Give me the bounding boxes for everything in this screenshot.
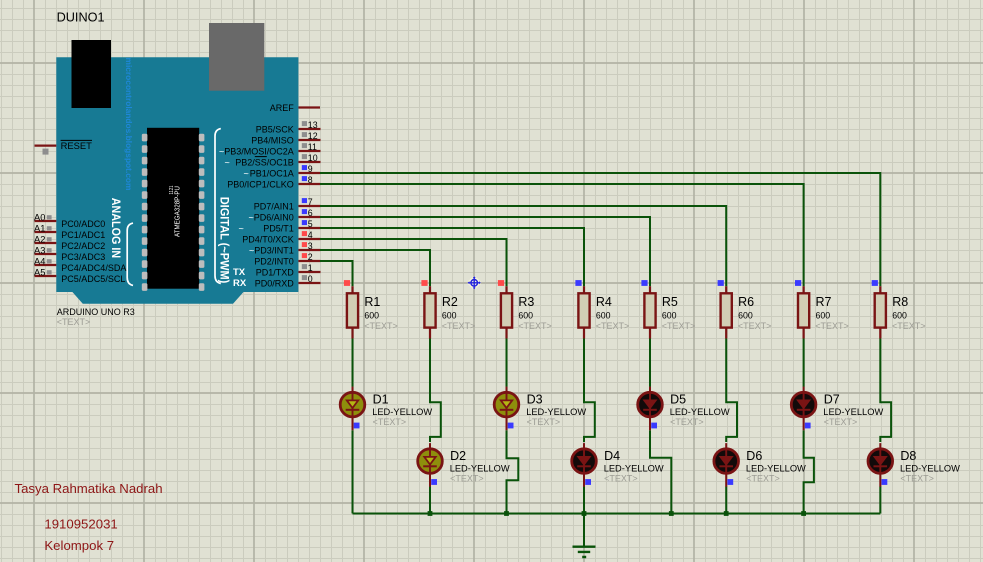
svg-text:12: 12 [308,131,318,141]
svg-text:1910952031: 1910952031 [44,517,117,532]
svg-text:<TEXT>: <TEXT> [824,417,858,427]
svg-text:A0: A0 [34,213,45,223]
svg-text:11: 11 [308,142,317,152]
svg-text:<TEXT>: <TEXT> [364,321,398,331]
svg-text:PD4/T0/XCK: PD4/T0/XCK [242,234,294,244]
svg-text:D4: D4 [604,449,620,463]
svg-text:1121: 1121 [169,185,175,194]
svg-text:<TEXT>: <TEXT> [900,473,934,483]
svg-text:TX: TX [233,267,246,278]
svg-text:D7: D7 [824,392,840,406]
svg-text:DIGITAL (~PWM): DIGITAL (~PWM) [218,197,230,284]
svg-text:PC0/ADC0: PC0/ADC0 [61,219,105,229]
svg-text:PB5/SCK: PB5/SCK [256,124,294,134]
svg-text:PC2/ADC2: PC2/ADC2 [61,241,105,251]
svg-text:600: 600 [442,310,457,320]
svg-text:600: 600 [738,310,753,320]
svg-text:LED-YELLOW: LED-YELLOW [450,464,510,474]
svg-text:PD7/AIN1: PD7/AIN1 [254,201,294,211]
svg-text:R3: R3 [518,295,534,309]
svg-text:<TEXT>: <TEXT> [442,321,476,331]
svg-text:PD6/AIN0: PD6/AIN0 [254,212,294,222]
svg-text:R7: R7 [816,295,832,309]
svg-text:7: 7 [308,197,313,207]
svg-text:600: 600 [596,310,611,320]
svg-text:3: 3 [308,241,313,251]
svg-text:DUINO1: DUINO1 [57,10,105,24]
svg-text:<TEXT>: <TEXT> [746,473,780,483]
svg-text:PD2/INT0: PD2/INT0 [254,256,294,266]
svg-text:PD3/INT1: PD3/INT1 [254,245,294,255]
svg-text:<TEXT>: <TEXT> [892,321,926,331]
svg-text:<TEXT>: <TEXT> [527,417,561,427]
svg-text:R5: R5 [662,295,678,309]
svg-text:RX: RX [233,278,247,289]
svg-text:PB0/ICP1/CLKO: PB0/ICP1/CLKO [227,179,294,189]
svg-text:LED-YELLOW: LED-YELLOW [823,407,883,417]
svg-text:A5: A5 [34,268,45,278]
svg-text:<TEXT>: <TEXT> [670,417,704,427]
svg-text:~: ~ [244,168,249,178]
svg-text:PB4/MISO: PB4/MISO [251,135,294,145]
svg-text:R8: R8 [892,295,908,309]
svg-text:Kelompok 7: Kelompok 7 [44,538,114,553]
svg-text:D6: D6 [746,449,762,463]
svg-text:R6: R6 [738,295,754,309]
svg-text:PB1/OC1A: PB1/OC1A [250,168,294,178]
svg-text:600: 600 [816,310,831,320]
svg-text:~: ~ [249,245,254,255]
svg-text:LED-YELLOW: LED-YELLOW [900,464,960,474]
svg-text:0: 0 [308,274,313,284]
svg-text:D8: D8 [900,449,916,463]
svg-text:D5: D5 [670,392,686,406]
svg-text:RESET: RESET [61,140,93,151]
svg-text:PC3/ADC3: PC3/ADC3 [61,252,105,262]
svg-text:13: 13 [308,120,318,130]
svg-text:<TEXT>: <TEXT> [450,473,484,483]
svg-text:D1: D1 [373,392,389,406]
svg-text:<TEXT>: <TEXT> [57,317,91,327]
svg-text:600: 600 [364,310,379,320]
svg-text:D2: D2 [450,449,466,463]
svg-text:10: 10 [308,153,318,163]
svg-text:~: ~ [239,223,244,233]
svg-text:600: 600 [662,310,677,320]
svg-text:<TEXT>: <TEXT> [815,321,849,331]
svg-text:PC1/ADC1: PC1/ADC1 [61,230,105,240]
svg-text:~: ~ [219,146,224,156]
svg-text:ARDUINO UNO R3: ARDUINO UNO R3 [57,307,135,317]
svg-text:PB2/SS/OC1B: PB2/SS/OC1B [235,157,294,167]
svg-text:<TEXT>: <TEXT> [738,321,772,331]
svg-text:6: 6 [308,208,313,218]
svg-text:R2: R2 [442,295,458,309]
svg-text:A3: A3 [34,246,45,256]
svg-text:PD5/T1: PD5/T1 [263,223,294,233]
svg-text:<TEXT>: <TEXT> [596,321,630,331]
svg-text:PB3/MOSI/OC2A: PB3/MOSI/OC2A [224,146,294,156]
svg-text:A2: A2 [34,235,45,245]
svg-text:PC4/ADC4/SDA: PC4/ADC4/SDA [61,263,126,273]
svg-text:microcontrolandos.blogspot.com: microcontrolandos.blogspot.com [124,58,134,191]
svg-text:LED-YELLOW: LED-YELLOW [526,407,586,417]
svg-text:8: 8 [308,175,313,185]
svg-text:R4: R4 [596,295,612,309]
svg-text:5: 5 [308,219,313,229]
svg-text:600: 600 [518,310,533,320]
svg-text:<TEXT>: <TEXT> [662,321,696,331]
svg-text:2: 2 [308,252,313,262]
svg-text:R1: R1 [364,295,380,309]
svg-text:LED-YELLOW: LED-YELLOW [746,464,806,474]
svg-text:9: 9 [308,164,313,174]
svg-text:Tasya Rahmatika Nadrah: Tasya Rahmatika Nadrah [15,481,163,496]
svg-text:ANALOG IN: ANALOG IN [109,198,121,259]
svg-text:AREF: AREF [270,103,295,113]
svg-text:D3: D3 [527,392,543,406]
svg-text:~: ~ [225,157,230,167]
svg-text:PD1/TXD: PD1/TXD [256,267,295,277]
svg-text:600: 600 [892,310,907,320]
svg-text:<TEXT>: <TEXT> [518,321,552,331]
svg-text:PC5/ADC5/SCL: PC5/ADC5/SCL [61,274,125,284]
svg-text:~: ~ [249,212,254,222]
svg-text:A4: A4 [34,257,45,267]
svg-text:LED-YELLOW: LED-YELLOW [372,407,432,417]
svg-text:1: 1 [308,263,313,273]
svg-text:A1: A1 [34,224,45,234]
svg-text:4: 4 [308,230,313,240]
svg-text:LED-YELLOW: LED-YELLOW [670,407,730,417]
svg-text:<TEXT>: <TEXT> [604,473,638,483]
svg-text:LED-YELLOW: LED-YELLOW [604,464,664,474]
svg-text:PD0/RXD: PD0/RXD [255,278,295,288]
svg-text:<TEXT>: <TEXT> [373,417,407,427]
